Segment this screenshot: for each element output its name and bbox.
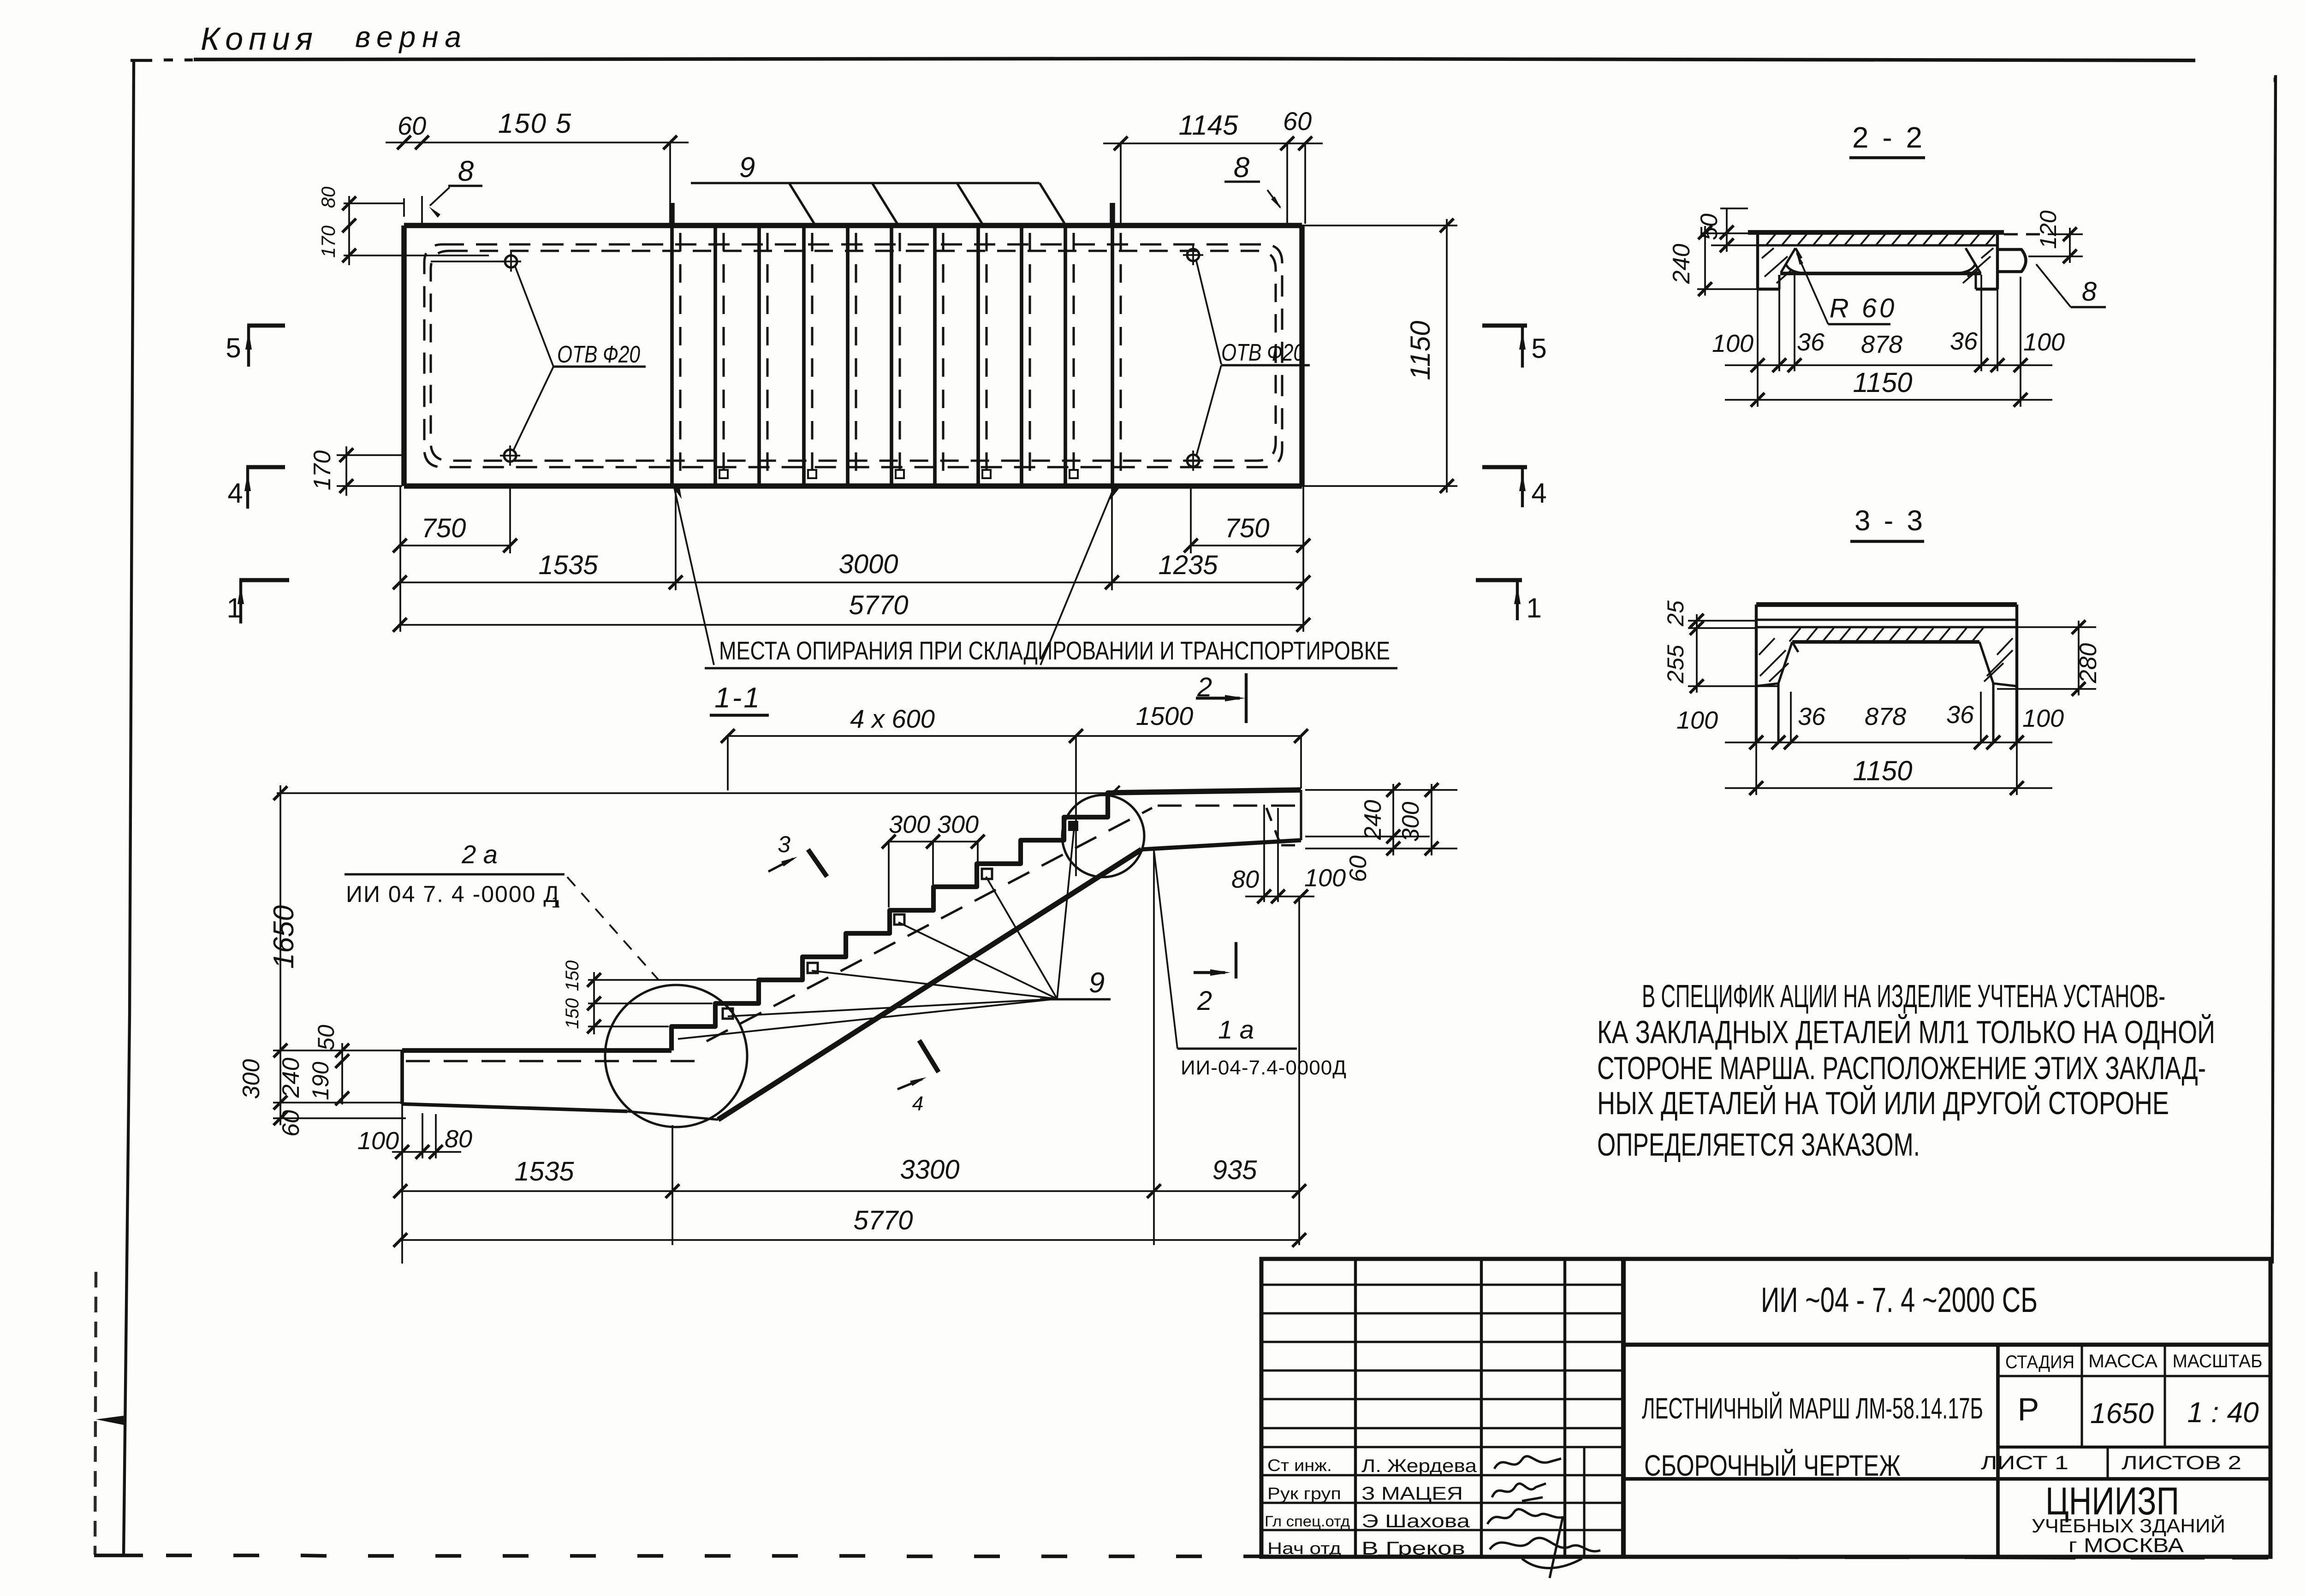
hole otv d20 left bottom (504, 450, 516, 462)
svg-text:36: 36 (1798, 703, 1826, 730)
leader lines to support note (674, 488, 714, 665)
svg-text:1650: 1650 (2090, 1398, 2154, 1430)
section mark 4 right (1482, 465, 1527, 469)
svg-text:100: 100 (357, 1127, 399, 1155)
stadia massa masshtab table (1996, 1345, 2000, 1557)
dimension row 1535 3300 935 of elevation (400, 1190, 1299, 1192)
2-2 lug on right side (1997, 249, 2026, 272)
2-2 hatch strokes in right rib (1981, 248, 1993, 258)
svg-text:170: 170 (317, 225, 339, 258)
svg-text:5: 5 (226, 332, 241, 363)
section mark 4 left (246, 465, 285, 469)
svg-text:50: 50 (1696, 214, 1723, 240)
svg-text:935: 935 (1212, 1155, 1258, 1185)
svg-text:СБОРОЧНЫЙ ЧЕРТЕЖ: СБОРОЧНЫЙ ЧЕРТЕЖ (1644, 1448, 1901, 1482)
svg-text:300: 300 (937, 811, 979, 838)
fold mark on left border (96, 1416, 124, 1425)
2-2 left dims 240 and 50 (1697, 288, 1758, 290)
left edge scan streak (95, 1272, 96, 1554)
dims 300 300 above steps (888, 842, 890, 908)
title block left table verticals (1354, 1259, 1357, 1557)
dimension 750 right below plan (1191, 545, 1303, 546)
signature scribble row2 (1492, 1483, 1546, 1501)
dims 100 80 bottom left of landing (422, 1113, 423, 1158)
leader from upper joint to 1a (1153, 847, 1177, 1049)
svg-text:36: 36 (1946, 701, 1974, 729)
svg-text:3 - 3: 3 - 3 (1854, 505, 1926, 537)
2-2 left rib (1756, 232, 1759, 289)
svg-text:150: 150 (562, 961, 582, 991)
2-2 bottom extension lines (1757, 289, 1759, 371)
detail circle lower joint (605, 985, 747, 1127)
label 9 of elevation (1040, 998, 1111, 1000)
svg-text:80: 80 (1231, 866, 1259, 893)
embedded plate squares on flight (723, 1009, 733, 1019)
right sheet border (2274, 75, 2276, 692)
svg-text:300: 300 (1397, 802, 1424, 842)
svg-text:100: 100 (1676, 706, 1718, 734)
section mark 1 right (1476, 578, 1522, 582)
svg-text:3300: 3300 (900, 1155, 959, 1185)
svg-text:1: 1 (1526, 593, 1541, 623)
svg-text:80: 80 (317, 186, 339, 208)
svg-text:4: 4 (1531, 478, 1546, 509)
svg-text:100: 100 (1304, 864, 1346, 892)
svg-text:120: 120 (2035, 210, 2061, 249)
extension line at top landing level (277, 792, 1113, 794)
svg-text:60: 60 (1283, 107, 1312, 136)
svg-text:МЕСТА ОПИРАНИЯ ПРИ СКЛАДИРО: МЕСТА ОПИРАНИЯ ПРИ СКЛАДИРОВАНИИ И ТРАНС… (719, 636, 1390, 665)
svg-text:240: 240 (1360, 800, 1386, 841)
svg-text:1150: 1150 (1853, 755, 1912, 786)
svg-text:1: 1 (552, 894, 560, 911)
upper landing dims 80 100 (1263, 805, 1265, 902)
svg-text:60: 60 (398, 111, 426, 140)
plan view outer outline (404, 223, 1302, 228)
svg-text:240: 240 (278, 1058, 304, 1098)
svg-text:9: 9 (739, 152, 755, 184)
svg-text:1 : 40: 1 : 40 (2187, 1397, 2258, 1429)
svg-text:9: 9 (1089, 967, 1105, 999)
svg-text:ЛИСТ 1: ЛИСТ 1 (1981, 1452, 2068, 1473)
svg-text:верна: верна (355, 20, 468, 53)
bottom border right of title block (1642, 1555, 1706, 1559)
svg-text:2 а: 2 а (461, 840, 498, 869)
dims 150 150 at first risers (588, 979, 756, 981)
2-2 cavity soffit (1780, 272, 1981, 275)
thick line under drawing title (1623, 1477, 2270, 1481)
svg-text:ОТВ Ф20: ОТВ Ф20 (1221, 339, 1304, 366)
svg-text:Л. Жердева: Л. Жердева (1361, 1456, 1477, 1476)
svg-text:НЫХ ДЕТАЛЕЙ НА ТОЙ ИЛИ Д: НЫХ ДЕТАЛЕЙ НА ТОЙ ИЛИ ДРУГОЙ СТОРОНЕ (1597, 1085, 2169, 1121)
dashed leader from 2a to lower circle (567, 877, 659, 980)
svg-text:170: 170 (309, 451, 336, 491)
svg-text:1150: 1150 (1853, 367, 1912, 398)
stair soffit thick diagonal (718, 849, 1141, 1120)
dimension 60-1505 top left (403, 198, 405, 217)
svg-text:ОПРЕДЕЛЯЕТСЯ ЗАКАЗОМ.: ОПРЕДЕЛЯЕТСЯ ЗАКАЗОМ. (1597, 1127, 1920, 1163)
svg-text:4: 4 (912, 1092, 923, 1115)
section mark 1 left (239, 578, 289, 582)
svg-text:150: 150 (562, 998, 582, 1029)
svg-text:8: 8 (458, 155, 474, 187)
plan small squares at tread bottoms (719, 470, 728, 478)
svg-text:3: 3 (778, 831, 790, 857)
svg-text:100: 100 (1712, 330, 1753, 357)
plan left vertical dims 80 and 170 top (344, 202, 404, 204)
hole otv d20 right top (1187, 249, 1199, 261)
svg-text:В СПЕЦИФИК АЦИИ НА ИЗДЕЛИЕ: В СПЕЦИФИК АЦИИ НА ИЗДЕЛИЕ УЧТЕНА УСТАНО… (1642, 978, 2165, 1014)
svg-text:Ст инж.: Ст инж. (1267, 1456, 1332, 1475)
svg-text:750: 750 (1225, 513, 1270, 543)
3-3 left rib and slope (1755, 605, 1758, 742)
svg-text:ОТВ Ф20: ОТВ Ф20 (557, 341, 640, 368)
dimension 1145-60 top right (1120, 143, 1122, 224)
hole otv d20 right bottom (1187, 455, 1199, 467)
support point stub top right (1110, 203, 1115, 225)
support point stub top left (669, 203, 675, 225)
section mark 2 lower (1194, 971, 1225, 974)
svg-text:МАСШТАБ: МАСШТАБ (2173, 1351, 2263, 1371)
svg-text:8: 8 (1234, 152, 1250, 184)
svg-text:2 - 2: 2 - 2 (1852, 121, 1925, 154)
svg-text:ИИ ~04 - 7. 4 ~2000 СБ: ИИ ~04 - 7. 4 ~2000 СБ (1761, 1281, 2038, 1320)
2-2 right dim 120 and label 8 (2028, 255, 2083, 257)
svg-text:Э Шахова: Э Шахова (1361, 1511, 1470, 1531)
top sheet border (dashed then solid) (131, 59, 152, 62)
svg-text:1: 1 (226, 593, 242, 623)
section mark 5 left (247, 324, 285, 328)
svg-text:1-1: 1-1 (714, 682, 761, 714)
svg-text:25: 25 (1663, 600, 1688, 627)
svg-text:ИИ-04-7.4-0000Д: ИИ-04-7.4-0000Д (1181, 1056, 1347, 1079)
lower landing outline (402, 1048, 672, 1053)
svg-text:878: 878 (1861, 331, 1902, 358)
3-3 dim 1150 (1755, 742, 1757, 795)
dimension 1150 right of plan (1302, 225, 1457, 226)
2-2 top slab lines (1702, 232, 1758, 234)
svg-text:36: 36 (1950, 327, 1978, 355)
3-3 hatching of slab band (1789, 628, 1801, 641)
dimension 5770 below plan (400, 624, 1303, 626)
svg-text:80: 80 (445, 1125, 472, 1153)
svg-text:1535: 1535 (514, 1157, 574, 1187)
svg-text:2: 2 (1197, 986, 1212, 1016)
inner dim column 50 190 (341, 1043, 343, 1104)
svg-text:КА ЗАКЛАДНЫХ ДЕТАЛЕЙ МЛ1 ТО: КА ЗАКЛАДНЫХ ДЕТАЛЕЙ МЛ1 ТОЛЬКО НА ОДНОЙ (1597, 1014, 2215, 1050)
svg-text:R 60: R 60 (1830, 293, 1897, 323)
detail circle upper joint (1062, 795, 1144, 877)
svg-text:В Греков: В Греков (1361, 1538, 1465, 1559)
signature scribble row4 flourish (1490, 1518, 1600, 1578)
title block thick line under number (1623, 1343, 2270, 1347)
dimension row 1535 3000 1235 (400, 581, 1303, 583)
svg-text:1650: 1650 (268, 905, 300, 969)
3-3 dim row 100 36 878 36 100 (1725, 742, 2052, 743)
2-2 hatch strokes in left rib (1762, 248, 1774, 258)
upper landing right edge and soffit (1300, 790, 1302, 840)
leader line from left rib to hole (431, 261, 505, 262)
3-3 hatch strokes right rib (1997, 638, 2013, 655)
2-2 right rib (1996, 232, 1999, 289)
section mark 5 right (1482, 324, 1527, 328)
dimension 5770 of elevation (400, 1239, 1299, 1241)
svg-text:255: 255 (1663, 645, 1688, 684)
left dim column 1650 300 240 60 (279, 785, 281, 1125)
svg-text:Гл спец.отд: Гл спец.отд (1265, 1513, 1350, 1530)
svg-text:г МОСКВА: г МОСКВА (2068, 1534, 2184, 1557)
svg-text:240: 240 (1668, 244, 1695, 285)
section mark 4 mid flight (919, 1040, 939, 1072)
svg-text:5770: 5770 (853, 1205, 913, 1235)
svg-text:ИИ 04 7. 4 -0000 Д: ИИ 04 7. 4 -0000 Д (346, 881, 560, 907)
svg-text:1150: 1150 (1405, 320, 1436, 380)
svg-text:1500: 1500 (1136, 701, 1194, 730)
plan bottom extension lines (399, 486, 401, 632)
2-2 right inner slope (1966, 248, 1980, 272)
svg-text:1145: 1145 (1178, 110, 1238, 141)
elevation top dims 4x600 and 1500 (727, 736, 729, 790)
svg-text:ЛИСТОВ 2: ЛИСТОВ 2 (2122, 1452, 2241, 1473)
embedded plate square at top tread (filled) (1068, 821, 1078, 831)
svg-text:750: 750 (422, 513, 466, 543)
elevation bottom extension lines (672, 1125, 673, 1245)
svg-text:3000: 3000 (838, 549, 898, 579)
svg-text:878: 878 (1865, 703, 1906, 730)
svg-text:190: 190 (308, 1062, 333, 1100)
svg-text:4: 4 (227, 478, 243, 509)
svg-text:СТАДИЯ: СТАДИЯ (2005, 1352, 2074, 1372)
svg-text:280: 280 (2075, 643, 2102, 684)
title block left table rows (1261, 1283, 1623, 1286)
2-2 left inner slope and fillet (1781, 248, 1795, 272)
upper landing right end dims 240 300 60 (1305, 789, 1457, 791)
svg-text:5: 5 (1531, 333, 1546, 364)
svg-text:60: 60 (1345, 855, 1372, 882)
hidden dashed lines of flight (406, 1060, 707, 1062)
2-2 dim row 100 36 878 36 100 (1725, 364, 2052, 366)
hole otv d20 left top (505, 255, 517, 267)
3-3 top slab lines (1756, 602, 2017, 607)
fan leader lines from label 9 (678, 999, 1057, 1039)
svg-text:З МАЦЕЯ: З МАЦЕЯ (1361, 1483, 1463, 1504)
svg-text:8: 8 (2082, 277, 2097, 307)
svg-text:300: 300 (238, 1059, 265, 1099)
svg-text:СТОРОНЕ МАРША. РАСПОЛОЖЕНИЕ: СТОРОНЕ МАРША. РАСПОЛОЖЕНИЕ ЭТИХ ЗАКЛАД- (1597, 1050, 2206, 1086)
plan hidden rib outline inner dashed (431, 251, 1276, 461)
svg-text:100: 100 (2022, 705, 2064, 732)
2-2 hatching of slab band (1766, 233, 1777, 245)
plan hidden rib outline outer dashed (424, 244, 1282, 467)
dimension 750 left below plan (400, 545, 510, 546)
svg-text:300: 300 (889, 811, 930, 838)
3-3 left dims 25 and 255 (1696, 614, 1698, 693)
3-3 hatch strokes left rib (1759, 638, 1775, 655)
signature scribble row1 (1494, 1456, 1561, 1469)
svg-text:Копия: Копия (201, 21, 318, 57)
2-2 dim 1150 (1757, 371, 1759, 407)
svg-text:1535: 1535 (538, 550, 598, 580)
svg-text:ЛЕСТНИЧНЫЙ МАРШ ЛМ-58.14.17Б: ЛЕСТНИЧНЫЙ МАРШ ЛМ-58.14.17Б (1642, 1391, 1983, 1425)
3-3 right rib and slope (2015, 605, 2018, 742)
svg-text:4 x 600: 4 x 600 (850, 704, 935, 733)
svg-text:50: 50 (313, 1025, 339, 1050)
3-3 right dim 280 (1997, 688, 2096, 690)
list row (2106, 1447, 2109, 1479)
svg-text:60: 60 (278, 1110, 304, 1137)
svg-text:36: 36 (1797, 328, 1825, 356)
svg-text:5770: 5770 (849, 590, 908, 620)
plan left vertical dim 170 bottom (337, 454, 404, 456)
svg-text:Нач отд: Нач отд (1267, 1539, 1341, 1558)
svg-text:1235: 1235 (1158, 550, 1218, 580)
title block outer frame (1261, 1259, 2270, 1557)
svg-text:1 а: 1 а (1218, 1015, 1254, 1044)
svg-text:150 5: 150 5 (498, 108, 572, 139)
svg-text:Рук груп: Рук груп (1267, 1484, 1341, 1503)
svg-text:МАССА: МАССА (2088, 1351, 2157, 1371)
svg-text:100: 100 (2023, 328, 2065, 356)
signature scribble row3 (1487, 1509, 1563, 1524)
upper landing top surface (1113, 790, 1301, 793)
left sheet border (130, 60, 134, 1015)
stair step profile thick zigzag (672, 793, 1113, 1050)
plan tread lines (solid) with hidden dashed companions (670, 225, 674, 486)
bottom sheet border (dashed) (94, 1554, 143, 1557)
3-3 bottom extension lines (1790, 692, 1792, 742)
3-3 cavity soffit (1792, 640, 1979, 644)
svg-text:Р: Р (2018, 1391, 2039, 1427)
svg-text:УЧЕБНЫХ ЗДАНИЙ: УЧЕБНЫХ ЗДАНИЙ (2032, 1514, 2225, 1537)
